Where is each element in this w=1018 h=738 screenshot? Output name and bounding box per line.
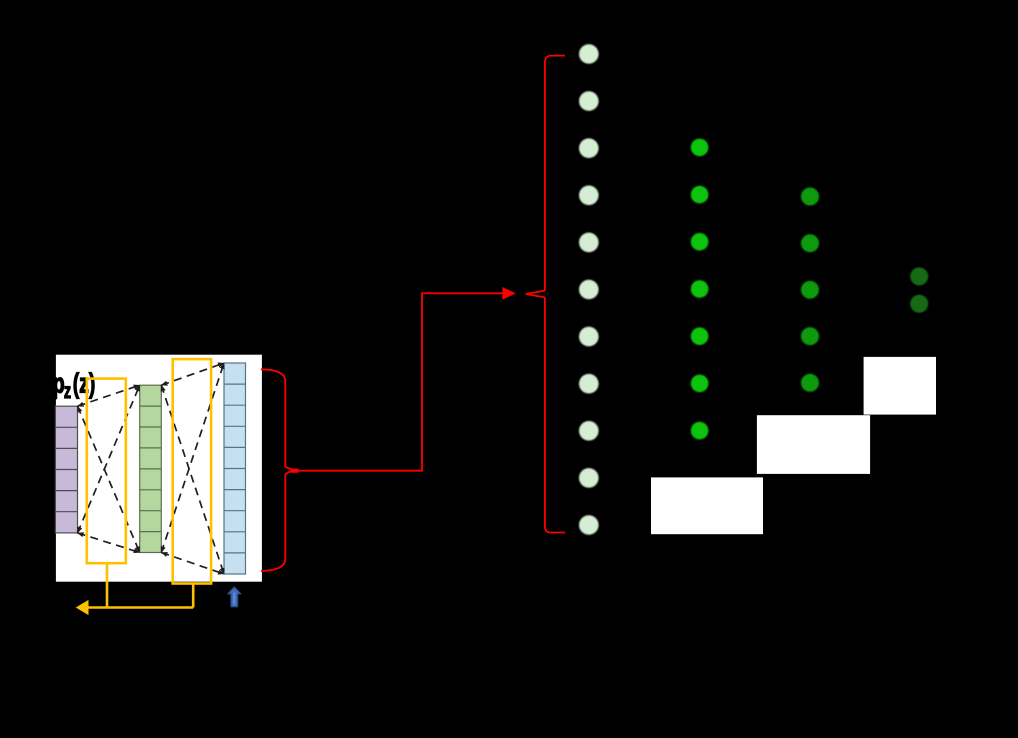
dot column 1 (pale green, 11 units) bbox=[579, 44, 599, 535]
dashed connections purple-green bbox=[78, 385, 140, 552]
latent stack z (purple) bbox=[55, 406, 77, 533]
dot column 2 (bright green, 7 units) bbox=[691, 139, 709, 440]
encoder box 1 (orange rect) bbox=[87, 379, 126, 564]
label p_z(z) bbox=[53, 368, 96, 403]
red arrowhead bbox=[502, 287, 516, 300]
white card (autoencoder panel) bbox=[56, 355, 262, 582]
dot column 3 (medium green, 5 units) bbox=[801, 188, 819, 392]
svg-text:pz(z): pz(z) bbox=[53, 368, 96, 403]
dot column 4 (dark green, 2 units) bbox=[910, 267, 928, 312]
white mask box 1 bbox=[651, 477, 763, 534]
encoder box 2 (orange rect) bbox=[173, 359, 211, 583]
output stack x (blue) bbox=[224, 363, 246, 574]
red brace right of card bbox=[261, 369, 293, 571]
blue up arrow bbox=[228, 587, 241, 607]
red brace left of dot column bbox=[526, 56, 565, 533]
white mask box 3 bbox=[864, 357, 936, 415]
yellow feedback arrow bbox=[88, 563, 194, 607]
white mask box 2 bbox=[757, 415, 870, 474]
red connecting wire bbox=[291, 469, 299, 473]
dashed connections green-blue bbox=[161, 363, 224, 574]
hidden stack (green) bbox=[140, 385, 162, 552]
